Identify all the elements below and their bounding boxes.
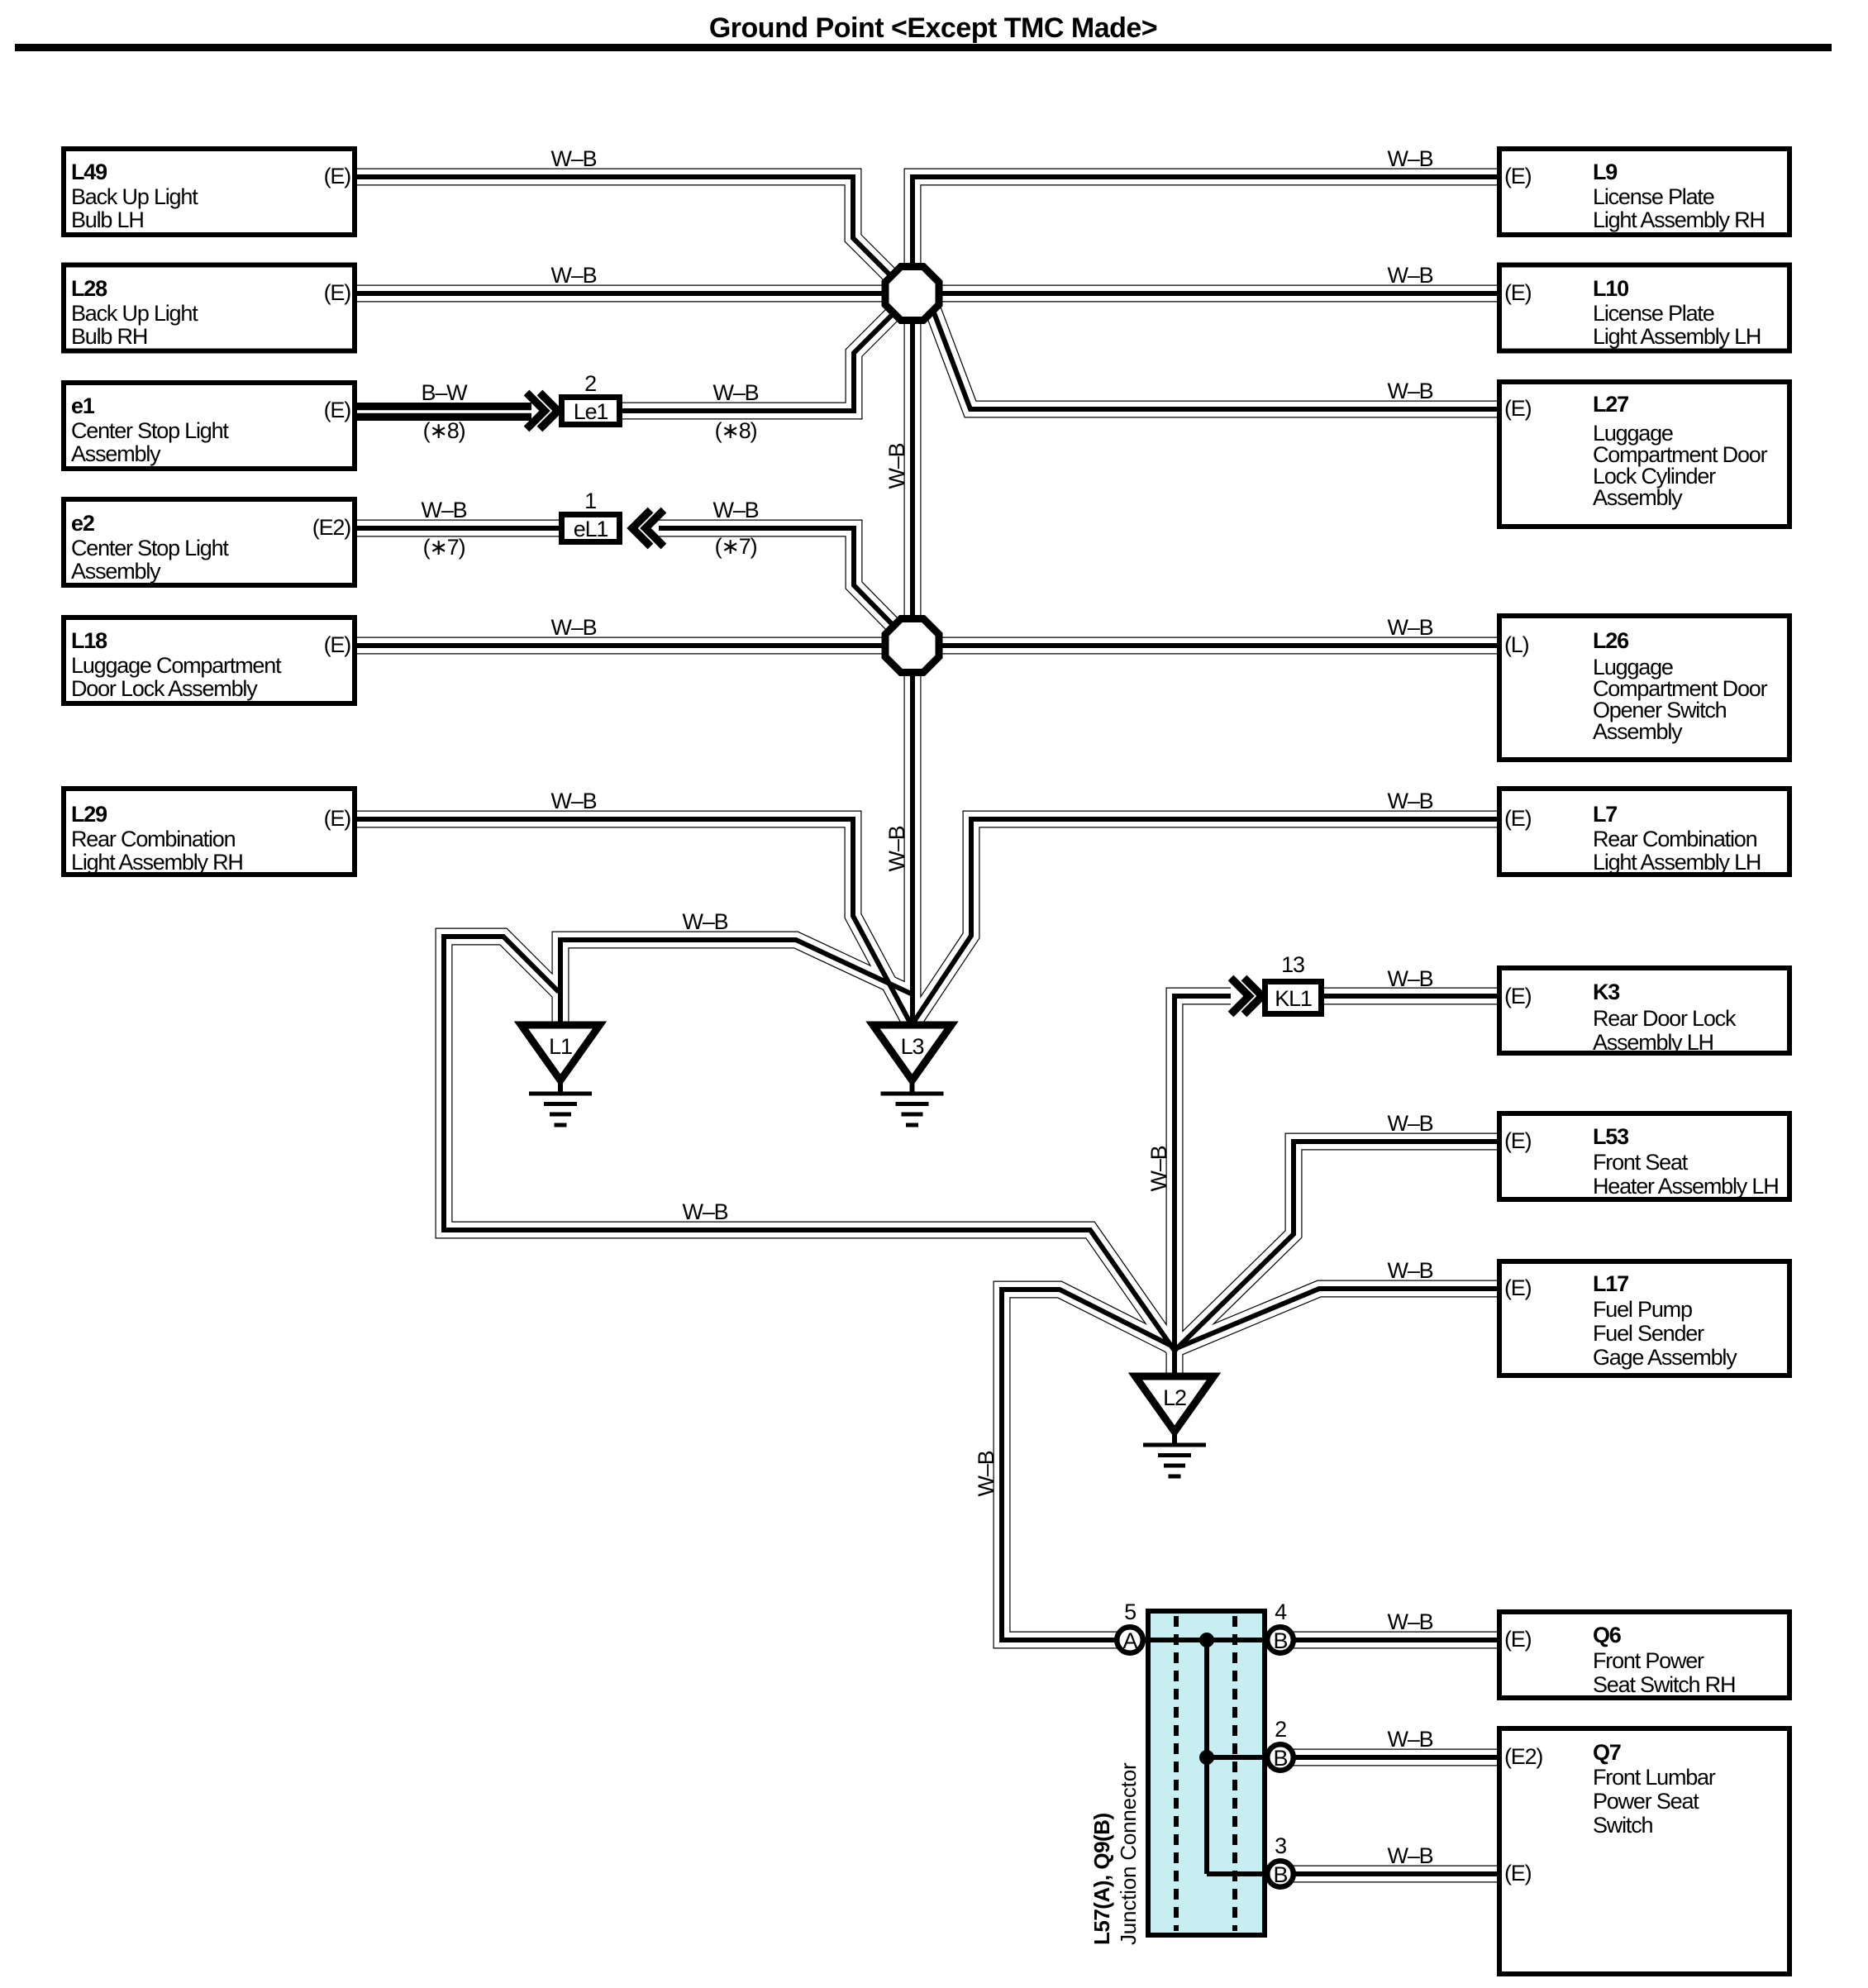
svg-text:Assembly: Assembly [71,559,161,584]
svg-text:Light Assembly RH: Light Assembly RH [1593,207,1765,232]
svg-text:Center Stop Light: Center Stop Light [71,418,229,443]
svg-text:W–B: W–B [422,498,467,522]
svg-text:Le1: Le1 [574,399,608,424]
svg-text:L3: L3 [901,1034,924,1059]
svg-text:W–B: W–B [1388,1843,1433,1868]
svg-text:L7: L7 [1593,802,1617,827]
svg-text:L18: L18 [71,628,107,653]
svg-text:Assembly: Assembly [71,441,161,466]
svg-text:W–B: W–B [1388,615,1433,640]
svg-text:B: B [1273,1746,1287,1771]
svg-text:Door Lock Assembly: Door Lock Assembly [71,676,258,701]
svg-text:W–B: W–B [683,909,728,934]
svg-text:W–B: W–B [1388,1727,1433,1752]
svg-text:2: 2 [584,371,596,396]
svg-text:2: 2 [1275,1717,1286,1742]
svg-text:(E): (E) [1504,1275,1532,1300]
svg-text:Assembly: Assembly [1593,485,1683,510]
svg-text:W–B: W–B [1388,146,1433,171]
svg-text:K3: K3 [1593,980,1620,1004]
svg-text:L1: L1 [549,1034,572,1059]
svg-text:(E): (E) [1504,984,1532,1008]
svg-text:(E): (E) [1504,1128,1532,1153]
svg-text:B–W: B–W [422,380,469,405]
svg-text:Front Seat: Front Seat [1593,1150,1689,1175]
svg-text:e1: e1 [71,393,95,418]
svg-text:4: 4 [1275,1599,1287,1624]
svg-text:Luggage Compartment: Luggage Compartment [71,653,282,678]
svg-text:eL1: eL1 [574,517,608,541]
svg-text:Fuel Sender: Fuel Sender [1593,1321,1704,1346]
svg-text:(E): (E) [324,632,351,657]
svg-text:13: 13 [1281,952,1304,977]
svg-text:W–B: W–B [551,263,597,288]
svg-text:Fuel Pump: Fuel Pump [1593,1297,1692,1322]
svg-text:KL1: KL1 [1275,986,1312,1011]
svg-text:(E2): (E2) [1504,1744,1542,1769]
svg-text:Light Assembly LH: Light Assembly LH [1593,850,1761,875]
svg-text:(E): (E) [324,398,351,422]
svg-text:5: 5 [1124,1599,1136,1624]
svg-text:Junction Connector: Junction Connector [1116,1762,1141,1945]
svg-text:W–B: W–B [551,146,597,171]
svg-text:3: 3 [1275,1833,1286,1858]
svg-text:W–B: W–B [1388,1609,1433,1634]
svg-text:License Plate: License Plate [1593,301,1714,326]
svg-text:1: 1 [584,489,596,513]
svg-text:Q7: Q7 [1593,1740,1621,1765]
svg-text:L28: L28 [71,276,107,301]
svg-text:Q6: Q6 [1593,1623,1622,1647]
svg-text:W–B: W–B [551,789,597,813]
svg-text:L29: L29 [71,802,107,827]
svg-text:e2: e2 [71,511,94,536]
svg-text:W–B: W–B [884,443,909,489]
svg-text:W–B: W–B [551,615,597,640]
svg-text:L9: L9 [1593,160,1618,184]
svg-text:L49: L49 [71,160,107,184]
svg-text:(E): (E) [324,164,351,188]
svg-text:W–B: W–B [1388,1258,1433,1283]
svg-text:W–B: W–B [713,498,759,522]
svg-text:Power Seat: Power Seat [1593,1789,1699,1814]
svg-text:Ground Point <Except TMC Made>: Ground Point <Except TMC Made> [709,12,1157,44]
svg-text:Front Lumbar: Front Lumbar [1593,1765,1716,1790]
svg-text:(∗7): (∗7) [423,535,465,560]
svg-text:W–B: W–B [713,380,759,405]
svg-text:(∗8): (∗8) [715,418,757,443]
svg-text:(E): (E) [1504,806,1532,831]
svg-text:(E): (E) [1504,280,1532,305]
svg-text:W–B: W–B [1146,1146,1171,1191]
svg-text:(E): (E) [1504,396,1532,421]
svg-text:Assembly LH: Assembly LH [1593,1030,1713,1055]
svg-text:L10: L10 [1593,276,1628,301]
svg-text:L2: L2 [1163,1385,1186,1410]
svg-text:A: A [1122,1628,1137,1653]
svg-text:Front Power: Front Power [1593,1648,1704,1673]
svg-text:Rear Combination: Rear Combination [71,827,236,851]
svg-text:Back Up Light: Back Up Light [71,301,198,326]
svg-text:W–B: W–B [683,1199,728,1224]
svg-text:Light Assembly LH: Light Assembly LH [1593,324,1761,349]
svg-text:W–B: W–B [1388,263,1433,288]
svg-text:Center Stop Light: Center Stop Light [71,536,229,560]
svg-text:(L): (L) [1504,632,1529,657]
svg-text:B: B [1273,1628,1287,1653]
svg-text:(E): (E) [324,280,351,305]
svg-text:Bulb LH: Bulb LH [71,207,144,232]
svg-text:L17: L17 [1593,1271,1628,1296]
svg-text:L27: L27 [1593,392,1628,417]
svg-text:(E2): (E2) [312,515,350,540]
svg-text:W–B: W–B [884,826,909,871]
svg-text:Rear Door Lock: Rear Door Lock [1593,1006,1737,1031]
svg-text:W–B: W–B [1388,1111,1433,1136]
svg-text:Bulb RH: Bulb RH [71,324,147,349]
svg-text:L26: L26 [1593,628,1629,653]
svg-text:Gage Assembly: Gage Assembly [1593,1345,1737,1370]
svg-text:Seat Switch RH: Seat Switch RH [1593,1672,1735,1697]
svg-text:W–B: W–B [1388,379,1433,403]
svg-text:Switch: Switch [1593,1813,1653,1838]
svg-text:License Plate: License Plate [1593,184,1714,209]
svg-text:(E): (E) [1504,1861,1532,1886]
svg-text:L57(A), Q9(B): L57(A), Q9(B) [1089,1813,1114,1945]
svg-text:Heater Assembly LH: Heater Assembly LH [1593,1174,1779,1199]
svg-text:W–B: W–B [974,1451,998,1496]
svg-text:(∗7): (∗7) [715,534,757,559]
svg-text:Back Up Light: Back Up Light [71,184,198,209]
svg-text:B: B [1273,1862,1287,1887]
svg-text:W–B: W–B [1388,789,1433,813]
svg-text:(E): (E) [1504,1627,1532,1652]
svg-text:Rear Combination: Rear Combination [1593,827,1757,851]
svg-text:(∗8): (∗8) [423,418,465,443]
svg-text:L53: L53 [1593,1124,1629,1149]
svg-text:Light Assembly RH: Light Assembly RH [71,850,243,875]
svg-text:(E): (E) [1504,164,1532,188]
svg-text:W–B: W–B [1388,966,1433,991]
svg-text:Assembly: Assembly [1593,719,1683,744]
svg-text:(E): (E) [324,806,351,831]
